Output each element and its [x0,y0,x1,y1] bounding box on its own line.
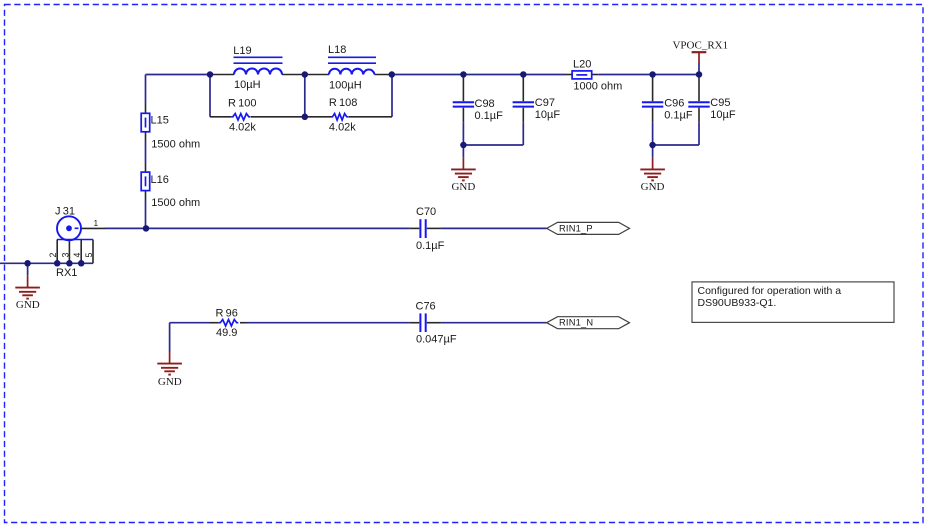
svg-text:R 108: R 108 [329,97,358,109]
svg-text:J 31: J 31 [55,205,75,217]
svg-text:0.047µF: 0.047µF [416,333,457,345]
svg-text:GND: GND [16,299,40,311]
svg-text:3: 3 [60,253,70,258]
svg-text:L16: L16 [151,174,169,186]
svg-text:10µF: 10µF [710,109,736,121]
svg-text:DS90UB933-Q1.: DS90UB933-Q1. [698,297,777,309]
svg-text:VPOC_RX1: VPOC_RX1 [672,39,728,51]
svg-text:1: 1 [94,218,99,228]
svg-text:RIN1_P: RIN1_P [559,223,593,233]
svg-text:Configured for operation with: Configured for operation with a [698,285,842,297]
svg-text:4.02k: 4.02k [229,122,256,134]
svg-text:2: 2 [48,253,58,258]
svg-text:49.9: 49.9 [216,327,237,339]
svg-text:10µF: 10µF [535,109,561,121]
svg-text:GND: GND [158,376,182,388]
svg-text:1000 ohm: 1000 ohm [573,80,622,92]
svg-text:RX1: RX1 [56,267,77,279]
svg-text:GND: GND [641,181,665,193]
svg-text:C96: C96 [664,97,684,109]
svg-text:0.1µF: 0.1µF [475,110,504,122]
svg-text:R 96: R 96 [216,308,238,320]
svg-text:0.1µF: 0.1µF [416,240,445,252]
svg-text:C95: C95 [710,97,730,109]
svg-text:C76: C76 [416,301,436,313]
svg-text:RIN1_N: RIN1_N [559,318,593,328]
svg-text:C70: C70 [416,206,436,218]
svg-text:4: 4 [72,253,82,258]
svg-text:10µH: 10µH [234,79,261,91]
svg-text:1500 ohm: 1500 ohm [151,197,200,209]
svg-text:L20: L20 [573,58,591,70]
svg-text:0.1µF: 0.1µF [664,109,693,121]
svg-text:C97: C97 [535,97,555,109]
svg-text:C98: C98 [475,98,495,110]
svg-text:L18: L18 [328,44,346,56]
svg-text:4.02k: 4.02k [329,122,356,134]
svg-text:100µH: 100µH [329,80,362,92]
svg-text:L15: L15 [151,115,169,127]
svg-text:1500 ohm: 1500 ohm [151,139,200,151]
svg-text:L19: L19 [233,45,251,57]
svg-text:GND: GND [451,181,475,193]
svg-text:R 100: R 100 [228,98,257,110]
svg-text:5: 5 [84,253,94,258]
